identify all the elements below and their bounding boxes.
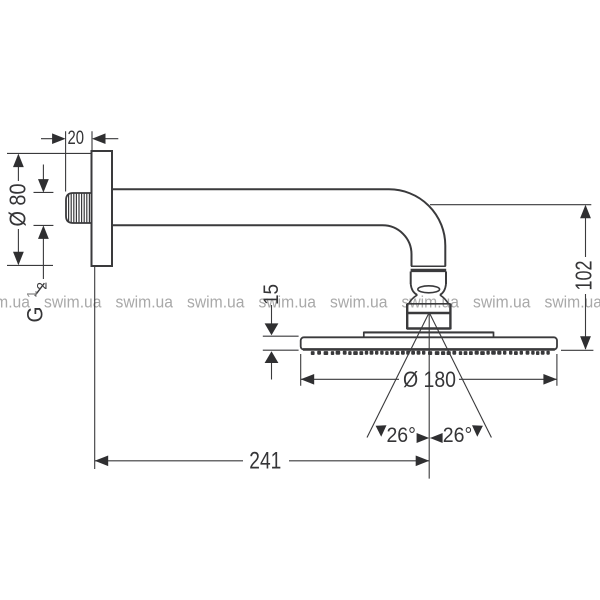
dim 20 extension lines [66, 131, 92, 191]
svg-text:102: 102 [571, 261, 597, 291]
ball joint skirt [409, 295, 418, 304]
knurling lines on knob [69, 193, 90, 223]
head connector box [407, 303, 451, 305]
svg-text:2: 2 [33, 282, 49, 290]
arrowhead 26 right pointing left [430, 433, 443, 443]
svg-text:26°: 26° [386, 423, 416, 447]
plate bottom edge thick [303, 348, 555, 351]
dim 15 extension lines [263, 336, 299, 350]
arrowhead 241 left [95, 456, 109, 467]
dim O180 extension lines [301, 354, 557, 386]
svg-text:20: 20 [67, 128, 84, 149]
nut sides [411, 272, 446, 285]
svg-text:Ø 80: Ø 80 [4, 184, 30, 227]
dim O80 extension lines [7, 153, 92, 265]
arrowhead G1/2 upper [38, 179, 49, 193]
threaded connector knob G1/2 [66, 193, 92, 223]
arrowhead G1/2 lower [38, 225, 49, 239]
arrowhead 102 bottom [580, 336, 591, 350]
arrowhead 241 right [416, 456, 430, 467]
spray angle left line [367, 313, 429, 438]
box divider thick [407, 312, 451, 315]
dim G1/2 leader lines [42, 165, 44, 280]
arrowhead 102 top [580, 205, 591, 219]
watermark row [0, 293, 600, 312]
svg-text:241: 241 [249, 448, 281, 475]
dim 26deg arrow tails [419, 437, 440, 439]
svg-text:swim.ua: swim.ua [116, 293, 174, 312]
arrowhead 20 right [92, 133, 106, 144]
shower head plate [301, 337, 557, 349]
dim O80 vertical line [17, 155, 19, 264]
dim 20 lines [41, 138, 118, 140]
svg-text:swim.ua: swim.ua [187, 293, 245, 312]
dim 102 extension lines [430, 205, 593, 351]
dim 102 dimension line [585, 206, 587, 349]
arrowhead spray right end [472, 425, 483, 437]
arrowhead 15 lower [265, 351, 279, 363]
nozzle strip [311, 351, 550, 355]
svg-text:G: G [22, 307, 47, 323]
arrowhead O180 left [301, 374, 315, 385]
dim 241 dimension line [95, 460, 430, 462]
arrowhead O80 top [13, 154, 24, 168]
svg-text:Ø 180: Ø 180 [403, 367, 456, 392]
ball joint ellipse [418, 286, 440, 293]
arrowhead O80 bottom [13, 252, 24, 266]
head step plate [364, 333, 494, 338]
arrowhead 15 upper [265, 323, 279, 335]
svg-text:swim.ua: swim.ua [545, 293, 600, 312]
arrowhead O180 right [543, 374, 557, 385]
wall flange plate (side view) [92, 151, 113, 266]
svg-text:swim.ua: swim.ua [473, 293, 531, 312]
ball joint lower curves [411, 284, 418, 295]
svg-text:26°: 26° [443, 423, 473, 447]
dim G1/2 extension lines [34, 192, 54, 225]
svg-text:swim.ua: swim.ua [330, 293, 388, 312]
arm collar thin line [411, 265, 446, 267]
fraction 1/2 slash [35, 283, 45, 296]
dim 15 leader lines [271, 305, 273, 380]
shower arm outline [112, 189, 445, 266]
spray angle right line [429, 313, 491, 438]
arrowhead 20 left [52, 133, 66, 144]
svg-text:swim.ua: swim.ua [44, 293, 102, 312]
dim 241 extension line [94, 266, 96, 469]
arm nut thick line [411, 269, 447, 272]
svg-text:1: 1 [24, 290, 40, 298]
arrowhead 26 left pointing right [417, 433, 430, 443]
head center line [428, 313, 430, 479]
arrowhead spray left end [376, 425, 387, 437]
svg-text:15: 15 [260, 284, 283, 305]
dim O180 dimension line [301, 378, 557, 380]
box bottom thick [407, 327, 451, 330]
